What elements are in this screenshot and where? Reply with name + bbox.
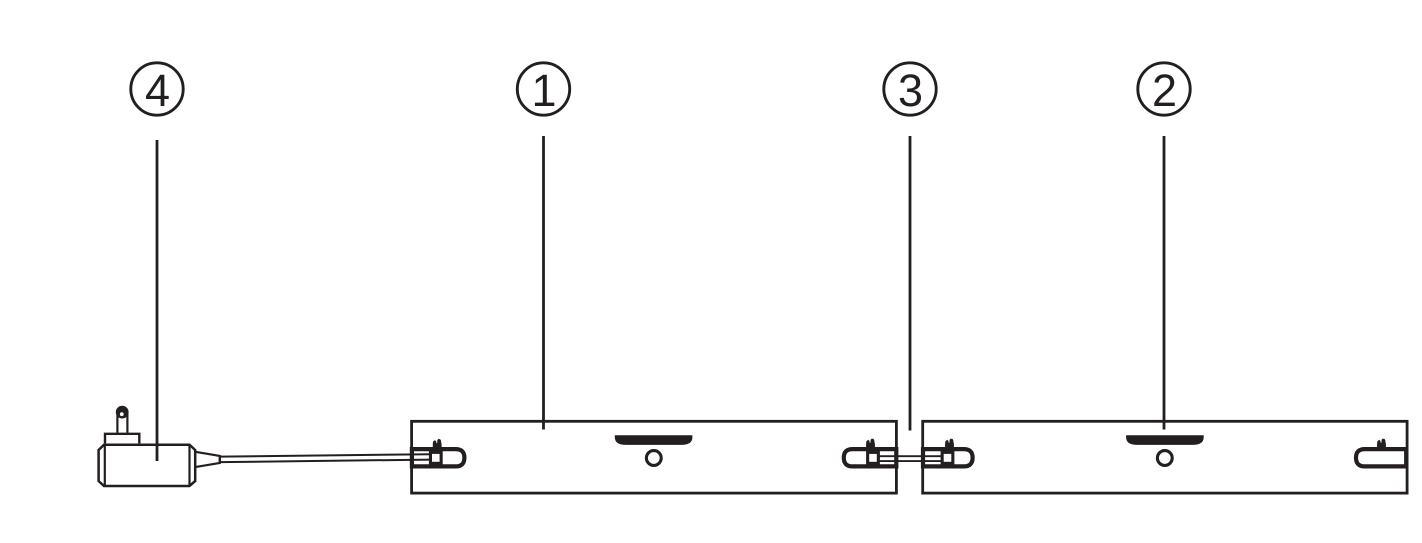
svg-text:3: 3 bbox=[898, 65, 923, 116]
svg-text:1: 1 bbox=[531, 65, 556, 116]
svg-text:2: 2 bbox=[1152, 65, 1177, 116]
svg-text:4: 4 bbox=[145, 65, 170, 116]
